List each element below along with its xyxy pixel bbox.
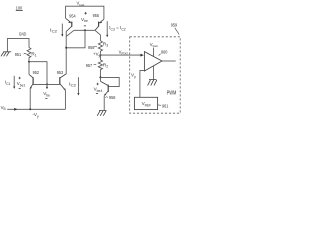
wire emitter bottom rail — [30, 108, 65, 110]
current arrow IC2 upper — [61, 24, 63, 37]
wire 958 emitter to ground — [103, 96, 105, 111]
svg-text:+Vy: +Vy — [93, 52, 101, 58]
node B bases junction — [46, 83, 48, 85]
node D junction on column — [65, 47, 67, 49]
wire jog to rail2 — [66, 30, 74, 36]
svg-text:953: 953 — [57, 70, 64, 75]
wire collector column x66 — [65, 31, 67, 74]
svg-text:Vbe1: Vbe1 — [17, 81, 26, 87]
svg-text:R3: R3 — [103, 42, 108, 48]
label Vbe center top — [84, 12, 87, 15]
svg-text:954: 954 — [69, 13, 76, 18]
transistor Q954 — [66, 18, 72, 31]
transistor Q952 — [29, 74, 33, 88]
node C bases drop junction — [84, 29, 86, 31]
svg-text:IC1: IC1 — [5, 80, 11, 86]
node +Vy — [99, 54, 101, 56]
current arrow IC2 lower — [77, 77, 79, 95]
resistor R1 (951) — [27, 48, 31, 62]
svg-text:R2: R2 — [103, 62, 108, 68]
label Vbe4 — [96, 83, 99, 86]
wire to center column — [29, 62, 47, 85]
svg-text:Vbatt: Vbatt — [150, 42, 158, 48]
ground under op-amp — [148, 80, 157, 86]
transistor Q958 diode-connected — [99, 77, 101, 81]
transistor Q953 — [60, 74, 66, 91]
wire 955 collector to R3 — [95, 30, 100, 40]
svg-text:IC2: IC2 — [50, 27, 57, 33]
ground under 958 — [97, 111, 106, 116]
svg-text:Vbe: Vbe — [43, 91, 50, 97]
V_be arrow center — [46, 84, 48, 89]
svg-text:956: 956 — [88, 45, 95, 50]
current arrow IC3 — [106, 21, 108, 37]
svg-text:VB: VB — [1, 105, 6, 111]
ground symbol left — [1, 52, 11, 57]
svg-text:GND: GND — [19, 31, 27, 36]
svg-text:PWM: PWM — [167, 91, 177, 97]
svg-text:951: 951 — [15, 52, 22, 57]
svg-text:Vbe: Vbe — [81, 17, 88, 23]
node VB junction — [29, 108, 31, 110]
label Vbe1 — [18, 77, 21, 80]
box VREF 961 — [134, 97, 157, 109]
wire 952 collector — [28, 62, 30, 75]
svg-text:958: 958 — [109, 95, 116, 100]
svg-text:Vbe4: Vbe4 — [94, 87, 103, 93]
wire GND horizontal — [7, 39, 29, 52]
svg-text:957: 957 — [86, 63, 93, 68]
wire top rail Vbatt — [66, 6, 104, 19]
figure number 100 — [16, 5, 23, 10]
label 961 — [158, 104, 161, 107]
wire bases rail — [33, 83, 60, 85]
svg-text:IC2: IC2 — [69, 81, 76, 87]
wire VPTAT to comparator — [100, 54, 143, 57]
wire inverting input to VREF — [140, 71, 145, 98]
svg-text:952: 952 — [33, 70, 40, 75]
node VB input arrow — [7, 108, 30, 111]
svg-text:VPTAT: VPTAT — [119, 49, 129, 55]
svg-text:961: 961 — [162, 103, 169, 108]
svg-text:960: 960 — [161, 49, 168, 54]
wire op-amp output — [162, 60, 176, 62]
svg-text:Vy: Vy — [131, 72, 136, 78]
svg-text:100: 100 — [16, 5, 23, 10]
wire 953 emitter down — [64, 90, 66, 109]
svg-text:VREF: VREF — [142, 101, 152, 107]
node A junction R1 bottom — [28, 61, 30, 63]
svg-text:R1: R1 — [31, 51, 36, 57]
transistor Q955 — [95, 19, 104, 30]
wire op-amp ground — [153, 66, 155, 80]
wire rail2 collectors — [74, 29, 95, 31]
wire Vbatt to op-amp — [153, 48, 155, 57]
node E junction R2 bottom — [99, 76, 101, 78]
svg-text:IC3 = IC2: IC3 = IC2 — [109, 25, 126, 31]
resistor R3 (956) — [98, 41, 102, 54]
svg-text:-Vy: -Vy — [32, 112, 39, 118]
dashed box 959 — [130, 37, 181, 113]
current arrow IC1 — [13, 76, 15, 89]
op-amp U960 — [144, 52, 162, 71]
wire 952 emitter down — [29, 88, 31, 109]
wire drop x85 — [66, 30, 85, 48]
wire 958 base loop — [100, 77, 119, 86]
resistor R2 (957) — [99, 55, 101, 60]
svg-text:959: 959 — [171, 23, 178, 28]
svg-text:955: 955 — [93, 13, 100, 18]
